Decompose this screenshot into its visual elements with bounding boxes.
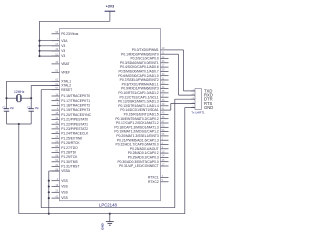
crystal X1 12MHz [7,90,32,102]
svg-text:GND: GND [100,222,104,230]
svg-text:P0.23/Vbus: P0.23/Vbus [61,32,78,36]
wire GND to ground rail [185,108,195,214]
svg-text:+3V3: +3V3 [106,5,115,9]
svg-text:LPC2148: LPC2148 [99,202,118,207]
svg-text:P1.16/TRACEPKT0: P1.16/TRACEPKT0 [61,94,90,98]
capacitor C1 [2,98,14,124]
node VSS junctions [48,180,50,215]
ground symbol [100,214,113,230]
svg-text:VBAT: VBAT [61,62,69,66]
svg-text:P1.27/TDO: P1.27/TDO [61,146,78,150]
node crystal right [30,97,32,99]
svg-text:RESET: RESET [61,88,72,92]
node caps junction [18,123,20,125]
svg-text:P1.31/TRST: P1.31/TRST [61,165,79,169]
svg-text:VSS: VSS [61,179,68,183]
svg-text:V3: V3 [61,54,65,58]
node ground symbol junction [109,213,111,215]
wire +3V3 to V3 pins [40,11,110,56]
svg-text:VSSA: VSSA [61,169,71,173]
svg-text:GND: GND [204,105,213,110]
wire XTAL2 [31,86,59,99]
svg-text:V3: V3 [61,49,65,53]
svg-text:P1.30/TMS: P1.30/TMS [61,160,78,164]
op IC U1 LPC2148 body [59,29,160,208]
svg-text:P1.22/PIPESTAT1: P1.22/PIPESTAT1 [61,122,88,126]
svg-text:P1.19/TRACEPKT3: P1.19/TRACEPKT3 [61,108,90,112]
node V3 rail junctions [38,40,59,57]
svg-text:P1.26/RTCK: P1.26/RTCK [61,141,80,145]
svg-text:VSS: VSS [61,185,68,189]
wire P0.1 RXD0 to connector RXD [169,54,196,95]
svg-text:P1.24/TRACECLK: P1.24/TRACECLK [61,132,89,136]
svg-text:P1.28/TDI: P1.28/TDI [61,151,76,155]
wire RTS to P0.14 [169,103,196,110]
svg-text:P1.18/TRACEPKT2: P1.18/TRACEPKT2 [61,104,90,108]
svg-text:15p: 15p [10,107,15,110]
IC left pins [52,31,92,200]
svg-text:P1.20/TRACESYNC: P1.20/TRACESYNC [61,113,91,117]
svg-text:VSS: VSS [61,190,68,194]
svg-text:P1.17/TRACEPKT1: P1.17/TRACEPKT1 [61,99,90,103]
connector pins [191,88,214,110]
svg-text:P1.29/TCK: P1.29/TCK [61,155,78,159]
svg-text:V3: V3 [61,44,65,48]
node crystal left [5,97,7,99]
svg-text:V3A: V3A [61,39,68,43]
power +3V3 [105,5,116,12]
svg-text:Tx UART1: Tx UART1 [191,111,205,115]
svg-text:12MHz: 12MHz [14,90,25,94]
wire RESET to DTR [41,90,195,208]
svg-text:P1.25/EXTIN0: P1.25/EXTIN0 [61,136,82,140]
wire XTAL1 [7,81,60,98]
wire P0.0 TXD0 to connector TXD [169,50,196,91]
capacitor C2 [27,98,39,124]
svg-text:RTXC2: RTXC2 [148,180,159,184]
op connector J1 Tx UART1 [191,89,205,115]
wire VSSA/VSS to ground [49,171,60,214]
svg-text:P0.31/UP_LED/CONNECT: P0.31/UP_LED/CONNECT [119,164,159,168]
svg-text:P1.23/PIPESTAT2: P1.23/PIPESTAT2 [61,127,88,131]
svg-text:VSS: VSS [61,196,68,200]
wire caps to ground [7,124,32,214]
svg-text:P1.21/PIPESTAT0: P1.21/PIPESTAT0 [61,118,88,122]
svg-text:15p: 15p [35,107,40,110]
wire ground rail [19,213,185,215]
IC right pins [114,47,168,184]
svg-text:VREF: VREF [61,70,70,74]
